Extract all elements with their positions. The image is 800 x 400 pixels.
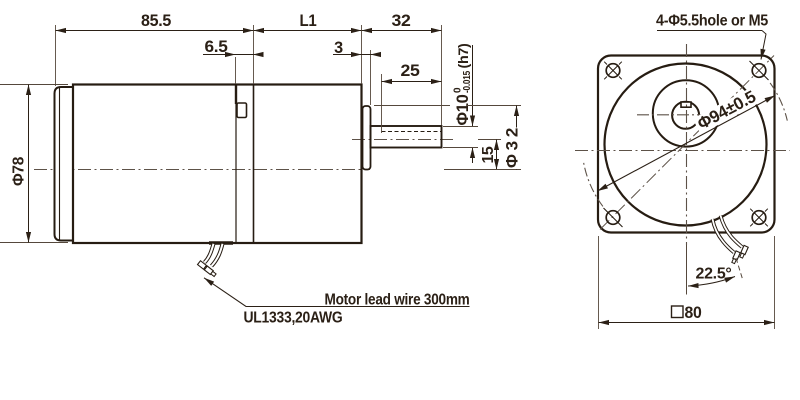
svg-text:UL1333,20AWG: UL1333,20AWG: [244, 310, 343, 327]
hole top-left: [604, 62, 622, 80]
svg-text:Φ10: Φ10: [454, 94, 472, 125]
hole bottom-right: [750, 209, 768, 227]
phi94 arc bottom-left: [583, 160, 603, 206]
motor body: [73, 85, 362, 244]
phi94 dim line: [598, 96, 776, 192]
svg-text:22.5°: 22.5°: [696, 266, 732, 283]
tab clip: [237, 103, 247, 118]
dim 6.5: [235, 57, 237, 84]
svg-text:(h7): (h7): [455, 44, 471, 69]
phi94 label: [692, 85, 763, 135]
front lead wire 1: [713, 219, 735, 253]
body circle: [605, 64, 767, 226]
svg-text:80: 80: [685, 304, 702, 322]
dim 15: [478, 139, 501, 141]
wire 2 crimp: [204, 266, 216, 277]
diagonal bolt centerline: [600, 56, 774, 230]
svg-text:4-Φ5.5hole or M5: 4-Φ5.5hole or M5: [656, 13, 768, 30]
wire grommet: [209, 241, 233, 245]
svg-text:3: 3: [334, 39, 343, 57]
svg-text:15: 15: [480, 146, 497, 163]
dim phi78: [0, 84, 68, 86]
svg-text:Motor lead wire 300mm: Motor lead wire 300mm: [325, 292, 470, 309]
keyway: [681, 102, 691, 107]
motor centerline: [34, 169, 370, 171]
front lead wire 2: [721, 216, 743, 248]
front wire 2 crimp terminal: [739, 245, 748, 258]
shaft flat hidden line: [382, 131, 442, 133]
joint line: [235, 104, 237, 243]
dim 32: [361, 25, 363, 84]
22.5 degree arc dimension: [688, 277, 735, 287]
joint line thick top: [235, 85, 237, 105]
front wire 1 crimp terminal: [731, 251, 740, 264]
svg-text:6.5: 6.5: [205, 38, 228, 56]
dim 25: [381, 74, 383, 133]
boss circle: [653, 80, 719, 146]
svg-text:-0.015: -0.015: [462, 70, 473, 93]
lead wire leader: [204, 278, 470, 307]
wire 2: [212, 244, 223, 266]
output boss: [363, 106, 371, 170]
wire 1 crimp: [198, 261, 210, 272]
svg-text:Φ32: Φ32: [503, 128, 522, 168]
flange square: [598, 56, 775, 233]
dim phi10 label: [453, 44, 474, 126]
svg-text:L1: L1: [300, 12, 317, 30]
svg-text:32: 32: [392, 12, 411, 30]
svg-text:25: 25: [401, 62, 420, 80]
rear cap: [55, 87, 74, 241]
dim 85.5: [55, 25, 57, 86]
dim square80: [598, 236, 600, 329]
dim L1: [253, 25, 255, 84]
shaft centerline: [352, 139, 455, 141]
phi94 arc top-right: [770, 83, 787, 121]
svg-text:Φ78: Φ78: [11, 157, 28, 186]
dim phi10 arrows: [472, 45, 474, 126]
svg-text:Φ94±0.5: Φ94±0.5: [694, 87, 759, 134]
hole top-right: [750, 61, 769, 80]
output shaft: [371, 126, 442, 148]
rear cap inner line: [59, 87, 61, 240]
dim 3: [370, 50, 372, 105]
vertical centerline: [686, 44, 688, 245]
dim phi32: [374, 105, 450, 107]
svg-text:85.5: 85.5: [141, 12, 171, 30]
hole bottom-left: [604, 208, 623, 227]
wire 1: [205, 244, 214, 263]
shaft circle: [672, 102, 699, 129]
horizontal centerline: [575, 150, 790, 152]
shaft horizontal centerline: [637, 114, 739, 116]
wire direction dashed line: [736, 258, 743, 279]
vertical centerline ext solid: [686, 245, 688, 295]
gearbox joint line: [253, 85, 255, 244]
